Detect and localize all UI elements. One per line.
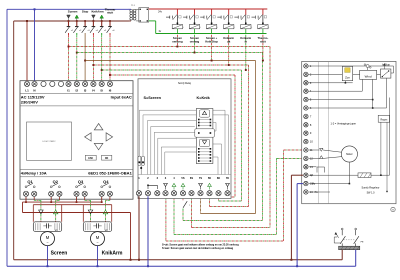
sensor Wind [360,70,377,79]
resistor on F line [358,173,371,178]
svg-text:uit: uit [227,40,230,44]
indicator lamp L5 [245,23,247,24]
relay S arrow cell [199,139,209,146]
wire N to blue bus [34,9,36,80]
svg-text:L: L [251,27,252,29]
wire net I3 bottom loop horizontal [201,213,256,215]
wire psu to terminals 1 2 [140,165,142,174]
capacitor Screen [46,223,48,228]
junction net I4 at level [92,64,94,66]
svg-text:Zon: Zon [345,75,350,79]
svg-text:Motor: Motor [346,153,353,156]
wire net I5 bottom loop horizontal [219,200,242,202]
transformer TL1 secondary coil [133,9,136,20]
wire net I1 bottom loop horizontal [192,227,271,229]
svg-text:Wind: Wind [365,74,372,78]
svg-text:I1: I1 [67,88,70,92]
wire net I3 right vertical drop [255,61,257,214]
relay terminal 5K [207,191,212,196]
In-Stop arrow [383,65,385,69]
wire 24V red bus [149,8,268,10]
wire net I4 bottom loop horizontal [210,206,249,208]
svg-text:ESC: ESC [88,158,93,160]
pushbutton S1 (Screen omhoog) [176,9,178,15]
connector arrow down (Screen omlaag) [67,15,71,18]
Somfy relay module outline [138,79,231,199]
relay terminal 4 [171,191,176,196]
transformer TL1 primary coil [130,9,133,20]
junction net I5 at level [101,69,103,71]
wire Pe terminal 16 [309,191,330,193]
wire Q1 to Screen motor down-winding with arrow [33,197,35,200]
svg-text:L: L [183,27,184,29]
relay terminal 3 [163,191,168,196]
relay terminal 5S [180,191,185,196]
svg-text:M: M [392,210,394,212]
indicator lamp L4 [228,23,230,24]
wire terminal 2 to In-Stop left [308,73,380,75]
wire pushbutton S5 to net [245,35,247,70]
terminal N [32,81,37,86]
wire regeleur terminal 14 to L bus (brown) [291,174,303,176]
regeleur terminal 14 [304,173,308,177]
wire input column net I2 [76,33,78,35]
svg-text:I4: I4 [92,88,95,92]
wire net I3 relay drop [200,197,202,214]
wire net I5 relay drop [218,197,220,202]
regeleur terminal 10 [304,139,308,143]
svg-text:I5: I5 [100,88,103,92]
indicator lamp L2 [194,23,196,24]
svg-text:SW 1.0: SW 1.0 [367,191,376,194]
wire pushbutton S4 to net [228,35,230,65]
svg-text:Somfy Regeleur: Somfy Regeleur [362,186,380,189]
regeleur terminal 4 [304,89,308,93]
switch s4 [92,18,94,20]
jumper socket terminal 13 [309,166,317,168]
relay middle terminal band [195,129,215,137]
wire relay 7S to regeleur terminal 11 (red dashed) [165,197,167,242]
wire L brown bus bottom [14,259,343,261]
wire pushbutton S6 to net [262,35,264,61]
motor (regeleur) circle [341,146,357,162]
wire KnikArm motor box sides [82,205,84,222]
pushbutton S2 (Screen omlaag) [194,9,196,15]
switch s6 [109,20,111,22]
wire net I2 bottom loop horizontal [183,220,263,222]
regeleur terminal 16 [304,190,308,194]
motor Screen M circle [41,232,55,246]
wire terminal 1 to In-Stop right [308,65,393,67]
svg-text:I3: I3 [84,88,87,92]
unused terminals [41,81,46,86]
svg-text:M: M [96,235,100,240]
wire lamp L2 to 0V bus [194,29,196,34]
pushbutton S6 (Thermo- stuit) [262,9,264,15]
PLC LOGO! module outline [20,81,133,200]
svg-text:Somfy Relay: Somfy Relay [178,83,192,85]
wire Q2 to Screen motor up-winding with arrow [58,197,60,200]
terminal I4 [91,81,96,86]
capacitor KnikArm [96,223,98,228]
wire 0V green bus [156,33,267,35]
arrow at relay terminal 3 [164,183,168,186]
arrow at relay terminal 7K [226,183,230,186]
terminal I2 [74,81,79,86]
wire Q4 to KnikArm motor up-winding with arrow [109,197,111,200]
junction net I2 at level [76,52,78,54]
switch s3 [84,20,86,22]
regeleur terminal 7 [304,114,308,118]
wire net I5 right vertical drop [241,70,243,201]
relay terminal 2 [155,191,160,196]
wire F terminal 14 [309,174,358,176]
svg-text:L: L [268,27,269,29]
wire motor down to My [348,162,350,184]
wire lamp L3 to 0V bus [211,29,213,34]
terminal I5 [99,81,104,86]
regeleur terminal 13 [304,165,308,169]
regeleur terminal 5 [304,97,308,101]
pushbutton S4 (Knikarm uit) [228,9,230,15]
relay terminal 6S [189,191,194,196]
wire net I1 horizontal level [69,46,271,48]
svg-text:7K: 7K [226,176,229,180]
svg-text:omlaag: omlaag [190,40,200,44]
PLC separator line 4 [20,176,133,178]
wire Q3 to KnikArm motor down-winding with arrow [84,197,86,200]
regeleur terminal 9 [304,131,308,135]
wire Screen motor box sides [32,205,34,222]
svg-text:KnikArm: KnikArm [102,250,123,256]
PLC cursor key up [94,124,103,130]
Zon sensor pin [344,81,346,83]
svg-text:L: L [234,27,235,29]
wire lamp L6 to 0V bus [262,29,264,34]
wire net I1 right vertical drop [269,47,271,228]
wire net I5 horizontal level [102,69,242,71]
wire 0V green vertical from PSU [149,20,156,22]
fuse arrow terminal 12 [309,157,320,159]
arrow at relay terminal 5K [208,183,212,186]
wire net I2 horizontal level [77,52,263,54]
wire input column net I5 [101,33,103,35]
PLC separator line 2 [20,105,133,107]
motor Screen winding box [33,222,61,232]
wire net I6 horizontal level [110,74,235,76]
terminal I3 [83,81,88,86]
fuse arrow terminal 11 [309,149,320,151]
wind anemometer symbol [366,65,369,68]
wire lamp L5 to 0V bus [245,29,247,34]
relay coil assembly outline [196,109,213,164]
wire N blue bus bottom [7,265,356,267]
svg-text:6K: 6K [217,176,220,180]
svg-text:Screen: Screen [51,250,68,256]
regeleur terminal 12 [304,156,308,160]
motor KnikArm M circle [91,232,105,246]
wire L1 to brown bus [26,21,28,81]
PLC cursor key right [106,133,113,141]
svg-text:L: L [217,27,218,29]
indicator lamp L3 [211,23,213,24]
mains plug bar [339,246,360,250]
mains switch pole N [355,243,357,246]
wire lamp L4 to 0V bus [228,29,230,34]
PLC button ESC [85,155,96,160]
svg-text:in: in [245,40,248,44]
wire pushbutton S1 to net [176,35,178,47]
mains switch pole L [341,243,343,246]
mains switch actuator hook [334,237,340,243]
indicator lamp L1 [176,23,178,24]
motor KnikArm winding box [83,222,111,232]
svg-text:230/240V: 230/240V [21,99,38,104]
regeleur terminal 3 [304,81,308,85]
mains switch actuator arrow [336,233,339,237]
svg-text:Pe: Pe [315,190,319,194]
jumper terminals 2-2 [148,185,157,189]
svg-text:stuit: stuit [107,11,113,15]
wire N blue bus top [7,8,128,10]
PLC display [27,122,72,160]
junction net I6 at level [109,74,111,76]
pushbutton S5 (Knikarm in) [245,9,247,15]
relay module power supply part [138,156,141,165]
connector arrow up (Screen omhoog) [75,15,79,18]
relay terminal 1 [136,191,141,196]
relay terminal 6K [216,191,221,196]
wire input column net I6 [109,33,111,35]
terminal L1 [24,81,29,86]
wire relay terminal 2 to N bus (blue) [147,196,149,266]
regeleur terminal 15 [304,181,308,185]
PLC separator line 3 [20,168,133,170]
wire plug to L bus [341,250,343,260]
wire pushbutton S2 to net [194,35,196,53]
svg-text:5K: 5K [208,176,211,180]
svg-text:~: ~ [96,240,98,244]
wire pushbutton S3 to net [211,35,213,61]
wire motor common line B [33,204,111,206]
svg-text:Input 6xAC: Input 6xAC [111,94,132,99]
Somfy regeleur outline [302,61,396,203]
terminal Q2 contacts [49,191,54,196]
mains switch link [344,239,355,241]
sensor Regen [378,115,390,122]
wire net I2 right vertical drop [262,53,264,221]
svg-text:5S: 5S [181,176,184,180]
relay terminal 7S [198,191,203,196]
indicator lamp L6 [262,23,264,24]
wire net I2 relay drop [182,197,184,201]
terminal Q1 contacts [23,191,28,196]
regeleur inner separator lines [318,61,320,203]
wire net I3 horizontal level [85,60,255,62]
relay K arrow cell [199,110,209,117]
svg-text:4xRelay / 10A: 4xRelay / 10A [21,171,47,176]
relay terminal 2 [145,191,150,196]
svg-text:6ED1 052-1FB00-OBA1: 6ED1 052-1FB00-OBA1 [88,171,132,176]
svg-text:I2: I2 [76,88,79,92]
relay K pins [198,119,200,121]
svg-text:Regen: Regen [381,119,388,121]
PLC separator line top [20,93,133,95]
switch S (keuze schakelaar) [183,201,187,208]
svg-text:S=uit: Screen gaat met knikar: S=uit: Screen gaat met knikarm alleen om… [162,244,239,247]
regeleur terminal 1 [304,64,308,68]
regeleur terminal 2 [304,72,308,76]
wire regeleur terminal 15 to N bus (blue) [297,183,303,185]
wire L brown bus left vertical [13,21,15,260]
arrow at relay terminal 4 [172,183,176,186]
wire relay 7K to regeleur terminal 12 (green dashed) [173,197,175,235]
terminal Q3 contacts [74,191,79,196]
wire L feed from brown bus [22,202,24,212]
terminal I1 [66,81,71,86]
power supply module [139,8,149,23]
wire transformer secondary to PSU [136,8,139,10]
svg-text:~: ~ [46,240,48,244]
switch s5 [101,18,103,20]
svg-text:Stop: Stop [82,9,89,13]
regeleur terminal 8 [304,123,308,127]
svg-text:N: N [33,88,35,92]
junction net I1 at level [68,46,70,48]
connector arrow down (KnikArm) [92,15,96,18]
PLC cursor key down [94,143,103,149]
junction net I3 at level [84,60,86,62]
wire lamp L1 to 0V bus [176,29,178,34]
svg-text:S=aan: Screen gaat samen met d: S=aan: Screen gaat samen met de knikarm … [162,247,234,250]
PLC button OK [102,155,112,160]
relay module internal wiring maze [139,110,225,174]
regeleur terminal 6 [304,106,308,110]
wire My terminal 15 [309,183,350,185]
svg-text:S=Screen: S=Screen [144,96,162,100]
wire N blue bus left vertical [6,9,8,266]
wire terminal 6 to In-Stop bottom [308,107,386,109]
relay terminal strip separator [138,174,231,176]
terminal Q4 contacts [99,191,104,196]
connector arrow up (KnikArm) [100,15,104,18]
terminal I6 [107,81,112,86]
sensor Zon [342,66,352,80]
wire terminal 3 to Zon sensor [308,82,352,84]
wire relay terminal 1 to L bus (brown) [138,196,140,260]
svg-text:K=Knik: K=Knik [197,96,211,100]
svg-text:I6: I6 [109,88,112,92]
wire motor KnikArm to N bus [97,246,99,267]
wire net I6 bottom loop horizontal [228,196,236,198]
arrow at relay terminal 7S [199,183,203,186]
wire input column net I4 [92,33,94,35]
wire net I4 right vertical drop [248,65,250,207]
svg-text:omhoog: omhoog [172,40,183,44]
wire input column net I1 [68,33,70,35]
wire Q commons feed line A [23,201,102,203]
wire input column net I3 [84,33,86,81]
wire Regen down legs [380,122,382,175]
svg-text:KnikArm: KnikArm [91,9,103,13]
wire net I4 relay drop [209,197,211,207]
wire net I4 horizontal level [93,64,248,66]
svg-text:stuit: stuit [260,40,266,44]
svg-text:OK: OK [105,158,109,160]
svg-text:LOGO! 230RC: LOGO! 230RC [42,141,56,143]
wire net I6 relay drop [227,196,229,199]
svg-text:7S: 7S [199,176,202,180]
pushbutton S3 (Screen + Knik Stop) [211,9,213,15]
PLC cursor key left [85,133,92,141]
switch s1 [68,18,70,20]
wire terminal 4 to Wind sensor left pin [308,90,362,92]
svg-text:L1: L1 [25,88,29,92]
regeleur terminal 11 [304,148,308,152]
wire terminal 5 to Wind vertical [308,99,372,101]
svg-text:1-2 = Vertraginge juper: 1-2 = Vertraginge juper [331,123,357,126]
svg-text:M: M [46,235,50,240]
wire L brown bus top [14,20,128,22]
wire net I6 right vertical drop [234,75,236,197]
wire Wind right pin down [372,79,374,108]
svg-text:L: L [200,27,201,29]
arrow at relay terminal 5S [181,183,185,186]
svg-text:Screen: Screen [68,9,78,13]
wire net I1 relay drop [191,197,193,228]
wire motor Screen to N bus [47,246,49,267]
wire plug to N bus [355,250,357,267]
relay terminal 7K [225,191,230,196]
earth mark circle [391,207,395,211]
switch s2 [76,18,78,20]
relay S pins [198,148,200,150]
svg-text:Knik Stop: Knik Stop [205,40,218,44]
svg-text:6S: 6S [190,176,193,180]
